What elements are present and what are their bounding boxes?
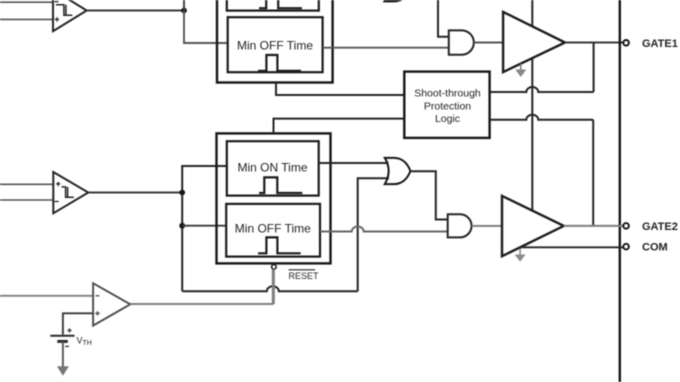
wire junction down to Min OFF 1 [184,11,228,44]
svg-text:COM: COM [642,242,668,254]
wire GATE2 output [564,225,624,227]
wire group2 top to shoot-through input [274,119,405,134]
wire sense2 vertical to GATE2 [592,120,594,226]
wire U3 plus input to battery [63,313,93,334]
wire comparator2 input B [0,199,53,201]
battery VTH [50,328,74,346]
comparator U2 [53,172,88,213]
pin terminal GATE1 [623,40,629,46]
wire Min ON 2 output to OR2 [319,162,389,164]
pulse glyph group1 min off [258,55,301,71]
wire comparator3 input [0,295,93,297]
svg-text:RESET: RESET [289,271,320,281]
ground arrow battery [57,366,69,376]
wire GATE1 output [565,42,623,44]
pin terminal GATE2 [623,223,629,229]
pulse glyph group1 min on [259,0,302,8]
svg-text:GATE1: GATE1 [642,38,678,50]
wire comparator2 input A [0,183,53,185]
and-gate channel2 [448,214,472,237]
svg-text:GATE2: GATE2 [642,221,678,233]
wire or1 output down to AND1 [438,0,449,37]
and-gate channel1 [449,30,474,54]
svg-text:Shoot-through: Shoot-through [414,88,481,100]
or-gate channel1 (clipped at top) [385,0,411,1]
wire AND2 output to driver2 [472,225,503,227]
wire sense2 horizontal with hop [490,115,594,120]
svg-text:Min OFF Time: Min OFF Time [237,38,313,52]
wire U1 output [87,10,184,12]
comparator U3 [93,283,130,325]
wire trunk vertical channel2 [182,166,227,291]
wire U2 output [88,192,182,194]
wire bypass vertical to OR2 input [358,178,389,291]
wire reset drop [273,269,275,304]
ground arrow driver1 [515,64,526,77]
wire U3 output to reset bubble [130,269,272,304]
node junction U2 out [179,190,185,196]
wire comparator1 input B [0,18,53,20]
wire sense1 horizontal with hop [490,87,594,92]
wire junction up [183,0,185,11]
wire junction to Min OFF 2 [182,225,226,227]
wire COM [520,246,623,248]
wire sense1 vertical from GATE1 [593,43,595,93]
comparator U1 (top, clipped) [53,0,87,31]
pin terminal COM [623,244,629,250]
driver buffer channel1 [503,12,565,72]
wire bypass horizontal with hop over reset wire [182,286,358,291]
label RESET [289,270,320,281]
reset bubble [272,265,277,270]
wire comparator1 input A [0,1,53,3]
or-gate channel2 [385,158,411,184]
wire Min OFF 2 output to AND2 with hop [320,227,448,232]
block group1 Min OFF Time box [228,17,323,72]
node junction min off 2 [179,223,185,229]
pulse glyph group2 min on [259,177,302,193]
svg-text:Logic: Logic [435,113,460,125]
wire supply top into driver1 [531,0,533,26]
ground arrow driver2 [515,248,526,261]
wire AND1 output to driver1 [474,42,503,44]
wire group1 bottom to shoot-through input [276,83,404,96]
wire battery to ground [62,341,64,367]
block group1 Min ON Time box (clipped) [227,0,319,11]
block group1 outer box (clipped top) [217,0,333,83]
svg-text:Min ON Time: Min ON Time [237,160,307,174]
wire supply driver1 to driver2 [531,58,533,210]
block group2 outer box [217,133,331,263]
wire Min OFF 1 output to AND1 [323,47,449,49]
driver buffer channel2 [502,196,564,256]
wire OR2 output to AND2 [411,171,448,219]
svg-text:Min OFF Time: Min OFF Time [235,221,311,235]
node junction U1 out [181,8,187,14]
block group2 Min ON Time box [227,141,319,195]
block shoot-through protection logic [404,72,489,138]
wire IC boundary bus [619,0,621,382]
svg-text:Protection: Protection [424,100,471,112]
block group2 Min OFF Time box [226,204,320,257]
pulse glyph group2 min off [258,237,301,253]
